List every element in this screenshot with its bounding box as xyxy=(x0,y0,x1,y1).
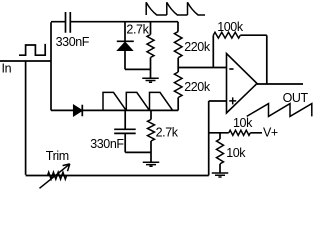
svg-text:10k: 10k xyxy=(226,146,246,160)
svg-text:330nF: 330nF xyxy=(56,35,90,49)
svg-text:10k: 10k xyxy=(233,116,253,130)
svg-text:In: In xyxy=(2,62,12,76)
svg-text:220k: 220k xyxy=(184,80,211,94)
svg-text:2.7k: 2.7k xyxy=(126,22,149,36)
svg-text:2.7k: 2.7k xyxy=(156,126,179,140)
svg-text:V+: V+ xyxy=(263,125,278,139)
svg-text:OUT: OUT xyxy=(283,91,309,105)
svg-text:220k: 220k xyxy=(184,40,211,54)
svg-text:330nF: 330nF xyxy=(90,137,124,151)
svg-text:Trim: Trim xyxy=(46,149,69,163)
svg-text:100k: 100k xyxy=(217,20,244,34)
